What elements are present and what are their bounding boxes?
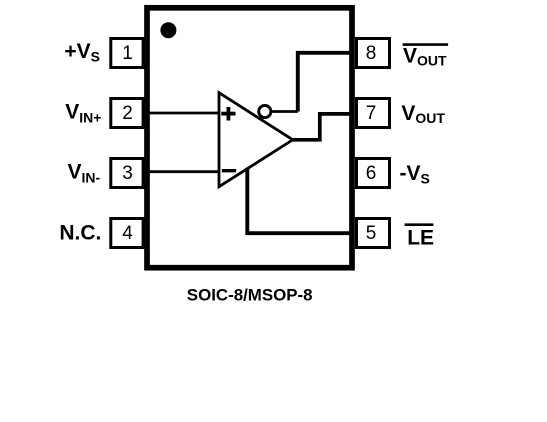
- wire pin2 to +input: [148, 112, 220, 115]
- pin 1 box: [111, 39, 143, 68]
- IC body U1: [147, 8, 352, 268]
- wire pin3 to -input: [148, 170, 220, 173]
- inversion bubble: [259, 105, 271, 117]
- pin 7 box: [357, 99, 390, 128]
- plus input symbol: [221, 107, 235, 121]
- svg-text:-VS: -VS: [400, 162, 430, 187]
- pin 6 box: [357, 159, 390, 188]
- wire output to pin 7: [293, 114, 352, 140]
- pin 4 box: [111, 219, 143, 248]
- wire inverted output to pin 8: [298, 53, 352, 112]
- wire latch enable to pin 5: [247, 168, 352, 233]
- svg-text:LE: LE: [407, 226, 434, 249]
- pin 8 box: [357, 39, 390, 68]
- pin 2 box: [111, 99, 143, 128]
- svg-text:5: 5: [366, 223, 377, 244]
- svg-text:8: 8: [366, 43, 377, 64]
- svg-text:6: 6: [366, 163, 377, 184]
- svg-text:4: 4: [122, 223, 133, 244]
- pin 1 indicator dot: [160, 22, 176, 38]
- svg-text:2: 2: [122, 103, 133, 124]
- svg-text:SOIC-8/MSOP-8: SOIC-8/MSOP-8: [187, 286, 313, 305]
- minus input symbol: [222, 169, 236, 172]
- svg-text:3: 3: [122, 163, 133, 184]
- svg-text:N.C.: N.C.: [59, 222, 101, 245]
- pin 5 box: [357, 219, 390, 248]
- svg-text:VIN+: VIN+: [65, 101, 101, 126]
- comparator U1 triangle: [219, 93, 293, 187]
- svg-text:7: 7: [366, 103, 377, 124]
- svg-text:1: 1: [122, 43, 133, 64]
- svg-text:VIN-: VIN-: [68, 161, 101, 186]
- wire bubble stub: [272, 110, 298, 113]
- pin 3 box: [111, 159, 143, 188]
- svg-text:VOUT: VOUT: [403, 45, 447, 69]
- label Vout-bar (pin 8): [403, 45, 448, 69]
- svg-text:VOUT: VOUT: [401, 102, 445, 126]
- label LE-bar (pin 5): [405, 225, 434, 250]
- svg-text:+VS: +VS: [64, 40, 100, 65]
